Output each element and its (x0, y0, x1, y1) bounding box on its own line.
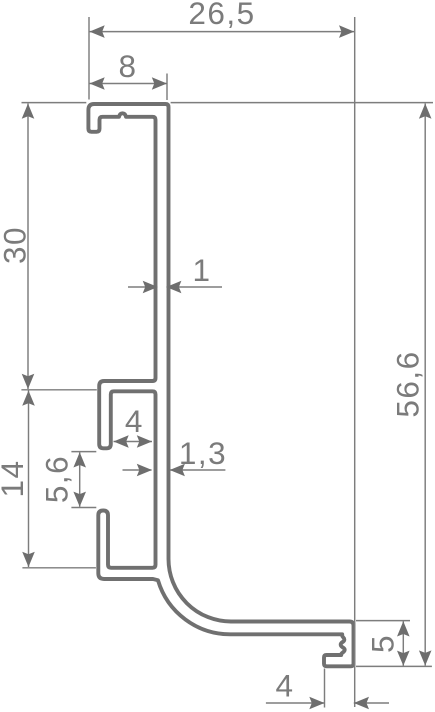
svg-text:4: 4 (125, 403, 144, 439)
dimension 26,5 (top overall width) (89, 0, 355, 707)
svg-text:8: 8 (118, 48, 137, 84)
dimension 4 (pocket inner width) (114, 403, 153, 448)
dimension 1,3 (pocket wall thickness) (123, 435, 228, 476)
svg-text:4: 4 (275, 667, 294, 703)
svg-text:1,3: 1,3 (179, 435, 227, 471)
dimension 8 (top flange width) (90, 48, 168, 100)
profile outline (aluminium skirting cross-section) (88, 104, 353, 666)
svg-text:5,6: 5,6 (39, 455, 75, 503)
svg-text:56,6: 56,6 (389, 350, 425, 417)
dimension 4 (foot tip width, bottom) (266, 667, 389, 709)
svg-text:5: 5 (365, 634, 401, 653)
svg-text:26,5: 26,5 (188, 0, 255, 31)
svg-text:14: 14 (0, 459, 30, 497)
dimension 14 (pocket height left) (0, 391, 96, 568)
dimension 5,6 (gap between fingers) (39, 452, 97, 508)
dimension 1 (upper wall thickness) (128, 252, 222, 293)
dimension 30 (upper left height) (0, 103, 97, 390)
svg-text:1: 1 (192, 252, 211, 288)
svg-text:30: 30 (0, 226, 33, 264)
dimension 5 (foot height) (356, 621, 410, 666)
dimension 56,6 (overall height right) (171, 103, 433, 667)
